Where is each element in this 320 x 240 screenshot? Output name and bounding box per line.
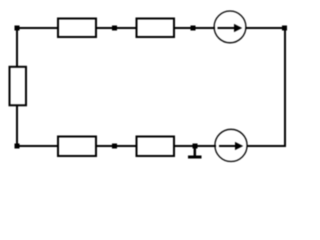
current source I1 (top) circle: [214, 11, 246, 43]
node A junction dot (top-left): [15, 26, 20, 31]
wire: bottom rail, R3 to bottom-left node F: [17, 145, 58, 147]
current source I1 arrow: [218, 24, 243, 32]
node B junction dot (top middle): [112, 26, 117, 31]
node F junction dot (bottom-left): [15, 144, 20, 149]
node D junction dot (top-right corner): [282, 26, 287, 31]
wire: bottom rail, R4 to R3 through node E: [95, 145, 137, 147]
ground (node G): junction dot, stem and bar: [188, 144, 202, 159]
wire: right rail, node D down to bottom-right corner: [284, 28, 286, 146]
wire: left rail, node A down to R5: [16, 28, 18, 67]
wire: bottom rail, I2 to R4 through ground node G: [173, 145, 216, 147]
resistor R1 (top left): [58, 19, 96, 38]
wire: bottom rail, bottom-right corner to current source I2: [247, 145, 286, 147]
wire: left rail, R5 down to node F: [16, 105, 18, 146]
node E junction dot (bottom middle): [112, 144, 117, 149]
node C junction dot (top, before I1): [191, 26, 196, 31]
resistor R2 (top right): [137, 19, 175, 38]
wire: top rail, I1 to top-right corner node D: [246, 27, 286, 29]
resistor R5 (left, vertical): [10, 67, 27, 106]
wire: top rail, R1 to R2 through node B: [95, 27, 137, 29]
resistor R3 (bottom left): [58, 137, 96, 157]
wire: top rail, R2 to current source I1 through node C: [173, 27, 215, 29]
resistor R4 (bottom right): [137, 137, 175, 157]
wire: top rail, node A dot to R1: [17, 27, 58, 29]
current source I2 arrow: [219, 142, 243, 150]
current source I2 (bottom) circle: [215, 129, 247, 161]
